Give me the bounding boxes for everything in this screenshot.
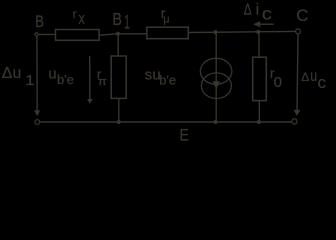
svg-text:χ: χ <box>78 11 85 25</box>
svg-text:b'e: b'e <box>159 72 176 87</box>
svg-text:u: u <box>48 66 56 83</box>
wire B down left branch <box>36 37 38 111</box>
current source arrow <box>213 81 220 89</box>
resistor r_0 <box>253 57 267 100</box>
node C terminal <box>296 29 301 34</box>
wire C down <box>297 34 298 110</box>
svg-text:Δ: Δ <box>301 70 309 84</box>
wire r_pi to bottom rail <box>118 98 120 122</box>
svg-text:μ: μ <box>163 13 169 25</box>
svg-text:1: 1 <box>25 73 34 89</box>
svg-text:Δu: Δu <box>2 65 22 82</box>
svg-text:c: c <box>318 73 327 92</box>
current source upper circle <box>200 58 232 84</box>
svg-text:s: s <box>145 66 153 83</box>
arrow delta u_c direction <box>294 110 301 116</box>
svg-text:u: u <box>310 67 317 85</box>
resistor r_mu <box>147 27 189 39</box>
wire r_mu to C <box>188 31 295 32</box>
bottom rail wire E <box>40 121 292 123</box>
node junction r_0 bottom <box>257 120 261 124</box>
svg-text:B: B <box>112 11 122 30</box>
node junction current source bottom <box>213 120 217 124</box>
svg-text:B: B <box>35 13 44 31</box>
svg-text:c: c <box>262 4 273 24</box>
wire B to r_x <box>39 33 56 35</box>
node junction current source top <box>213 30 217 34</box>
node junction r_0 top <box>256 30 260 34</box>
svg-text:0: 0 <box>274 74 282 91</box>
svg-text:C: C <box>296 6 308 25</box>
wire current source branch <box>215 32 217 122</box>
svg-text:b'e: b'e <box>57 72 74 87</box>
svg-text:E: E <box>180 126 189 143</box>
node terminal bottom left <box>35 120 40 125</box>
current arrow delta i_c <box>260 23 274 25</box>
resistor r_x <box>56 30 100 41</box>
svg-text:r: r <box>73 7 77 21</box>
node terminal bottom right <box>292 119 297 124</box>
wire r_0 bottom <box>258 101 260 122</box>
svg-text:π: π <box>98 75 107 88</box>
arrow delta u_1 direction <box>34 110 40 116</box>
wire B1 down to r_pi <box>117 34 119 56</box>
node junction r_pi bottom <box>117 120 121 124</box>
wire r_x to r_mu <box>99 34 118 35</box>
node B terminal <box>35 32 39 36</box>
wire r_0 top <box>258 32 260 57</box>
svg-text:i: i <box>256 2 260 19</box>
current source lower circle <box>201 73 231 99</box>
arrow line u_b'e <box>89 56 91 100</box>
svg-text:1: 1 <box>124 12 129 33</box>
svg-text:Δ: Δ <box>244 1 252 18</box>
resistor r_pi <box>111 56 126 98</box>
node B1 junction <box>116 32 120 36</box>
